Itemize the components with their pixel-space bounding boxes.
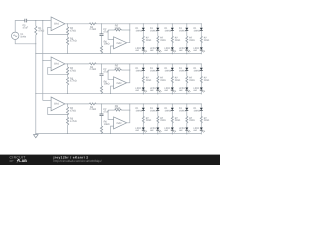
- svg-text:http://circuitlab.com/circuit/: http://circuitlab.com/circuit/c66fdqv/: [54, 159, 102, 163]
- svg-text:47kΩ: 47kΩ: [38, 29, 44, 32]
- svg-text:LAB: LAB: [19, 159, 27, 163]
- svg-text:47uF: 47uF: [23, 26, 29, 29]
- svg-text:1kHz: 1kHz: [20, 35, 26, 38]
